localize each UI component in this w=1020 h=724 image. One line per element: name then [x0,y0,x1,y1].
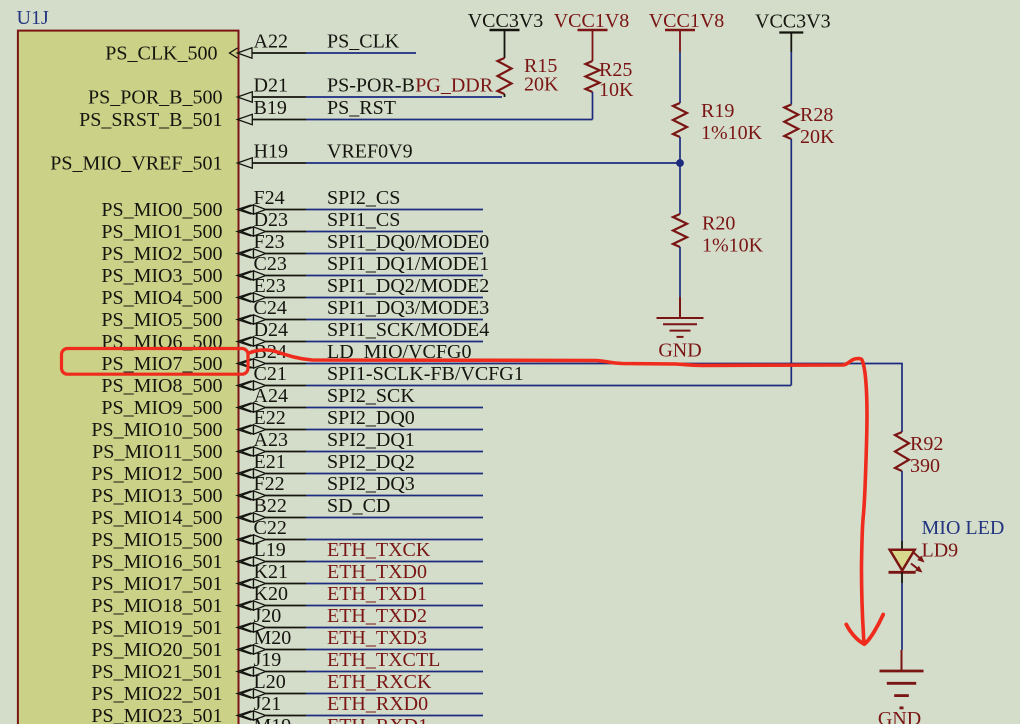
svg-text:PS_MIO23_501: PS_MIO23_501 [91,705,222,724]
svg-text:SPI1_DQ2/MODE2: SPI1_DQ2/MODE2 [327,275,489,297]
svg-text:L19: L19 [254,539,286,561]
svg-text:VCC1V8: VCC1V8 [649,10,725,32]
svg-text:R28: R28 [800,104,833,126]
svg-text:J19: J19 [254,649,282,671]
svg-text:F24: F24 [254,187,285,209]
svg-text:PG_DDR: PG_DDR [415,75,493,97]
svg-text:PS_MIO10_500: PS_MIO10_500 [91,419,222,441]
svg-text:PS_MIO9_500: PS_MIO9_500 [101,397,222,419]
svg-text:R20: R20 [702,213,735,235]
svg-text:F23: F23 [254,231,285,253]
svg-text:E23: E23 [254,275,286,297]
svg-text:PS_MIO2_500: PS_MIO2_500 [101,243,222,265]
svg-text:C21: C21 [254,363,287,385]
svg-text:PS_MIO22_501: PS_MIO22_501 [91,683,222,705]
svg-text:PS_MIO17_501: PS_MIO17_501 [91,573,222,595]
svg-text:VCC1V8: VCC1V8 [554,10,630,32]
svg-text:SD_CD: SD_CD [327,495,390,517]
svg-text:ETH_TXD0: ETH_TXD0 [327,561,427,583]
svg-text:K21: K21 [254,561,288,583]
svg-text:ETH_TXCTL: ETH_TXCTL [327,649,440,671]
svg-text:R25: R25 [599,59,632,81]
svg-text:VCC3V3: VCC3V3 [468,10,544,32]
svg-text:PS_MIO_VREF_501: PS_MIO_VREF_501 [50,152,222,174]
svg-text:MIO LED: MIO LED [922,517,1005,539]
svg-text:ETH_RXCK: ETH_RXCK [327,671,432,693]
svg-text:PS_MIO1_500: PS_MIO1_500 [101,221,222,243]
svg-text:VREF0V9: VREF0V9 [327,141,413,163]
svg-text:PS_MIO11_500: PS_MIO11_500 [92,441,222,463]
svg-text:PS_MIO19_501: PS_MIO19_501 [91,617,222,639]
svg-text:SPI2_SCK: SPI2_SCK [327,385,415,407]
svg-text:1%10K: 1%10K [701,122,763,144]
svg-text:ETH_RXD1: ETH_RXD1 [327,715,428,724]
svg-text:A22: A22 [254,31,288,53]
svg-text:F22: F22 [254,473,285,495]
svg-text:PS_MIO13_500: PS_MIO13_500 [91,485,222,507]
svg-text:SPI2_DQ2: SPI2_DQ2 [327,451,415,473]
svg-text:R92: R92 [910,433,943,455]
svg-text:1%10K: 1%10K [702,235,764,257]
svg-text:PS_SRST_B_501: PS_SRST_B_501 [79,109,222,131]
svg-text:L20: L20 [254,671,286,693]
svg-text:J21: J21 [254,693,282,715]
svg-text:PS_MIO21_501: PS_MIO21_501 [91,661,222,683]
svg-text:M19: M19 [254,715,292,724]
svg-text:SPI2_DQ1: SPI2_DQ1 [327,429,415,451]
svg-text:PS_CLK_500: PS_CLK_500 [105,42,217,64]
svg-text:J20: J20 [254,605,282,627]
svg-text:PS_MIO4_500: PS_MIO4_500 [101,287,222,309]
svg-text:20K: 20K [524,74,559,96]
svg-text:B19: B19 [254,97,287,119]
svg-text:LD9: LD9 [922,540,959,562]
svg-text:PS_MIO3_500: PS_MIO3_500 [101,265,222,287]
svg-text:ETH_TXD1: ETH_TXD1 [327,583,427,605]
svg-text:PS_MIO15_500: PS_MIO15_500 [91,529,222,551]
svg-text:PS_RST: PS_RST [327,97,396,119]
svg-text:K20: K20 [254,583,288,605]
svg-text:SPI2_DQ0: SPI2_DQ0 [327,407,415,429]
svg-text:D24: D24 [254,319,288,341]
svg-text:PS_MIO16_501: PS_MIO16_501 [91,551,222,573]
svg-text:PS_MIO7_500: PS_MIO7_500 [101,353,222,375]
svg-text:PS_MIO5_500: PS_MIO5_500 [101,309,222,331]
svg-text:SPI1_SCK/MODE4: SPI1_SCK/MODE4 [327,319,489,341]
svg-text:B22: B22 [254,495,287,517]
svg-text:10K: 10K [599,79,634,101]
svg-text:GND: GND [658,340,701,362]
svg-text:PS_MIO0_500: PS_MIO0_500 [101,199,222,221]
svg-text:ETH_TXD3: ETH_TXD3 [327,627,427,649]
svg-text:PS_MIO20_501: PS_MIO20_501 [91,639,222,661]
svg-text:PS_POR_B_500: PS_POR_B_500 [88,86,223,108]
svg-text:20K: 20K [800,126,835,148]
svg-text:390: 390 [910,455,940,477]
svg-text:SPI2_CS: SPI2_CS [327,187,400,209]
svg-text:PS_MIO12_500: PS_MIO12_500 [91,463,222,485]
svg-text:SPI2_DQ3: SPI2_DQ3 [327,473,415,495]
svg-text:PS_MIO18_501: PS_MIO18_501 [91,595,222,617]
svg-text:VCC3V3: VCC3V3 [755,11,831,33]
svg-text:PS_CLK: PS_CLK [327,31,400,53]
svg-text:SPI1_DQ1/MODE1: SPI1_DQ1/MODE1 [327,253,489,275]
svg-text:ETH_RXD0: ETH_RXD0 [327,693,428,715]
svg-text:SPI1_DQ0/MODE0: SPI1_DQ0/MODE0 [327,231,489,253]
svg-text:M20: M20 [254,627,292,649]
svg-text:PS-POR-B: PS-POR-B [327,75,415,97]
svg-text:PS_MIO8_500: PS_MIO8_500 [101,375,222,397]
svg-text:PS_MIO14_500: PS_MIO14_500 [91,507,222,529]
svg-text:E21: E21 [254,451,286,473]
svg-text:D23: D23 [254,209,288,231]
svg-text:GND: GND [878,708,921,724]
svg-text:E22: E22 [254,407,286,429]
svg-text:U1J: U1J [17,7,49,29]
svg-text:R19: R19 [701,100,734,122]
svg-text:C22: C22 [254,517,287,539]
svg-text:SPI1_CS: SPI1_CS [327,209,400,231]
svg-text:H19: H19 [254,141,288,163]
svg-text:C23: C23 [254,253,287,275]
svg-text:C24: C24 [254,297,287,319]
svg-text:A23: A23 [254,429,288,451]
svg-text:ETH_TXCK: ETH_TXCK [327,539,431,561]
svg-text:ETH_TXD2: ETH_TXD2 [327,605,427,627]
svg-text:D21: D21 [254,75,288,97]
svg-text:A24: A24 [254,385,288,407]
svg-text:SPI1-SCLK-FB/VCFG1: SPI1-SCLK-FB/VCFG1 [327,363,524,385]
svg-text:SPI1_DQ3/MODE3: SPI1_DQ3/MODE3 [327,297,489,319]
